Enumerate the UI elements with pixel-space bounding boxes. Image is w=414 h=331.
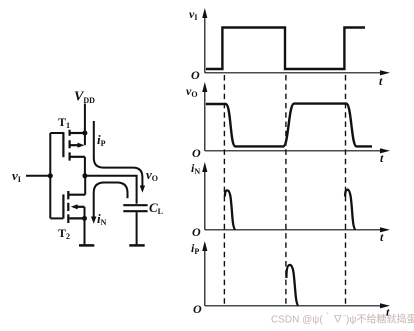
dashed line t1 — [223, 75, 225, 306]
svg-text:O: O — [192, 225, 201, 239]
plot4 waveform iP spike — [286, 265, 298, 306]
current iN arc — [94, 183, 128, 219]
svg-text:vO: vO — [186, 84, 198, 99]
node output junction — [82, 173, 87, 178]
svg-text:iN: iN — [191, 161, 200, 176]
ground CL — [129, 244, 144, 247]
svg-text:iP: iP — [191, 241, 199, 256]
transistor T1 body arrow — [78, 143, 85, 148]
transistor T2 body arrow — [71, 204, 78, 209]
plot3 iN horizontal axis — [205, 229, 381, 231]
svg-text:t: t — [379, 74, 383, 88]
svg-text:CSDN @ψ(｀∇´)ψ不给糖就捣蛋: CSDN @ψ(｀∇´)ψ不给糖就捣蛋 — [271, 312, 414, 326]
plot3 iN vertical axis — [204, 167, 206, 230]
ground T2 — [79, 244, 94, 247]
svg-text:iP: iP — [97, 132, 106, 148]
plot3 waveform iN spike1 — [225, 190, 236, 229]
wire input — [26, 175, 50, 177]
svg-text:T1: T1 — [58, 115, 70, 130]
wire T1 gate lead — [50, 132, 63, 134]
svg-text:vI: vI — [189, 7, 197, 22]
svg-text:O: O — [192, 146, 201, 160]
plot1 vI vertical axis — [204, 13, 206, 73]
wire CL to ground — [136, 212, 138, 245]
plot2 vO vertical axis — [204, 87, 206, 151]
plot2 waveform vO — [206, 104, 372, 147]
wire T2 drain up — [84, 176, 86, 195]
plot4 iP vertical axis — [204, 246, 206, 306]
wire VDD — [84, 104, 86, 134]
svg-text:vO: vO — [146, 167, 158, 183]
svg-text:T2: T2 — [58, 226, 70, 241]
svg-text:t: t — [380, 230, 384, 244]
wire T2 gate lead — [50, 217, 63, 219]
wire T1 source-body link — [84, 133, 86, 145]
dashed line t3 — [345, 75, 347, 306]
capacitor CL — [123, 205, 147, 211]
node VDD junction — [82, 131, 87, 136]
current iP path with vO arrow — [94, 121, 143, 188]
svg-text:iN: iN — [97, 211, 107, 227]
node T2 source junction — [82, 216, 87, 221]
wire T2 source to ground — [84, 218, 86, 245]
svg-text:t: t — [380, 151, 384, 165]
svg-text:O: O — [193, 302, 202, 316]
transistor T1 — [63, 130, 85, 161]
wire T2 body-source link — [84, 207, 86, 219]
plot3 waveform iN spike2 — [345, 190, 356, 230]
dashed line t2 — [285, 75, 287, 306]
wire gate bus — [49, 133, 51, 218]
plot1 waveform vI square wave — [206, 28, 365, 70]
svg-text:VDD: VDD — [74, 90, 95, 106]
svg-text:CL: CL — [149, 200, 163, 216]
wire T1 drain down — [84, 157, 86, 176]
node input junction — [48, 173, 53, 178]
plot1 vI horizontal axis — [205, 72, 381, 74]
plot2 vO horizontal axis — [205, 150, 381, 152]
svg-text:O: O — [191, 68, 200, 82]
wire output to capacitor — [85, 176, 137, 204]
svg-text:vI: vI — [12, 168, 21, 184]
transistor T2 — [63, 191, 85, 223]
plot4 iP horizontal axis — [205, 305, 381, 307]
